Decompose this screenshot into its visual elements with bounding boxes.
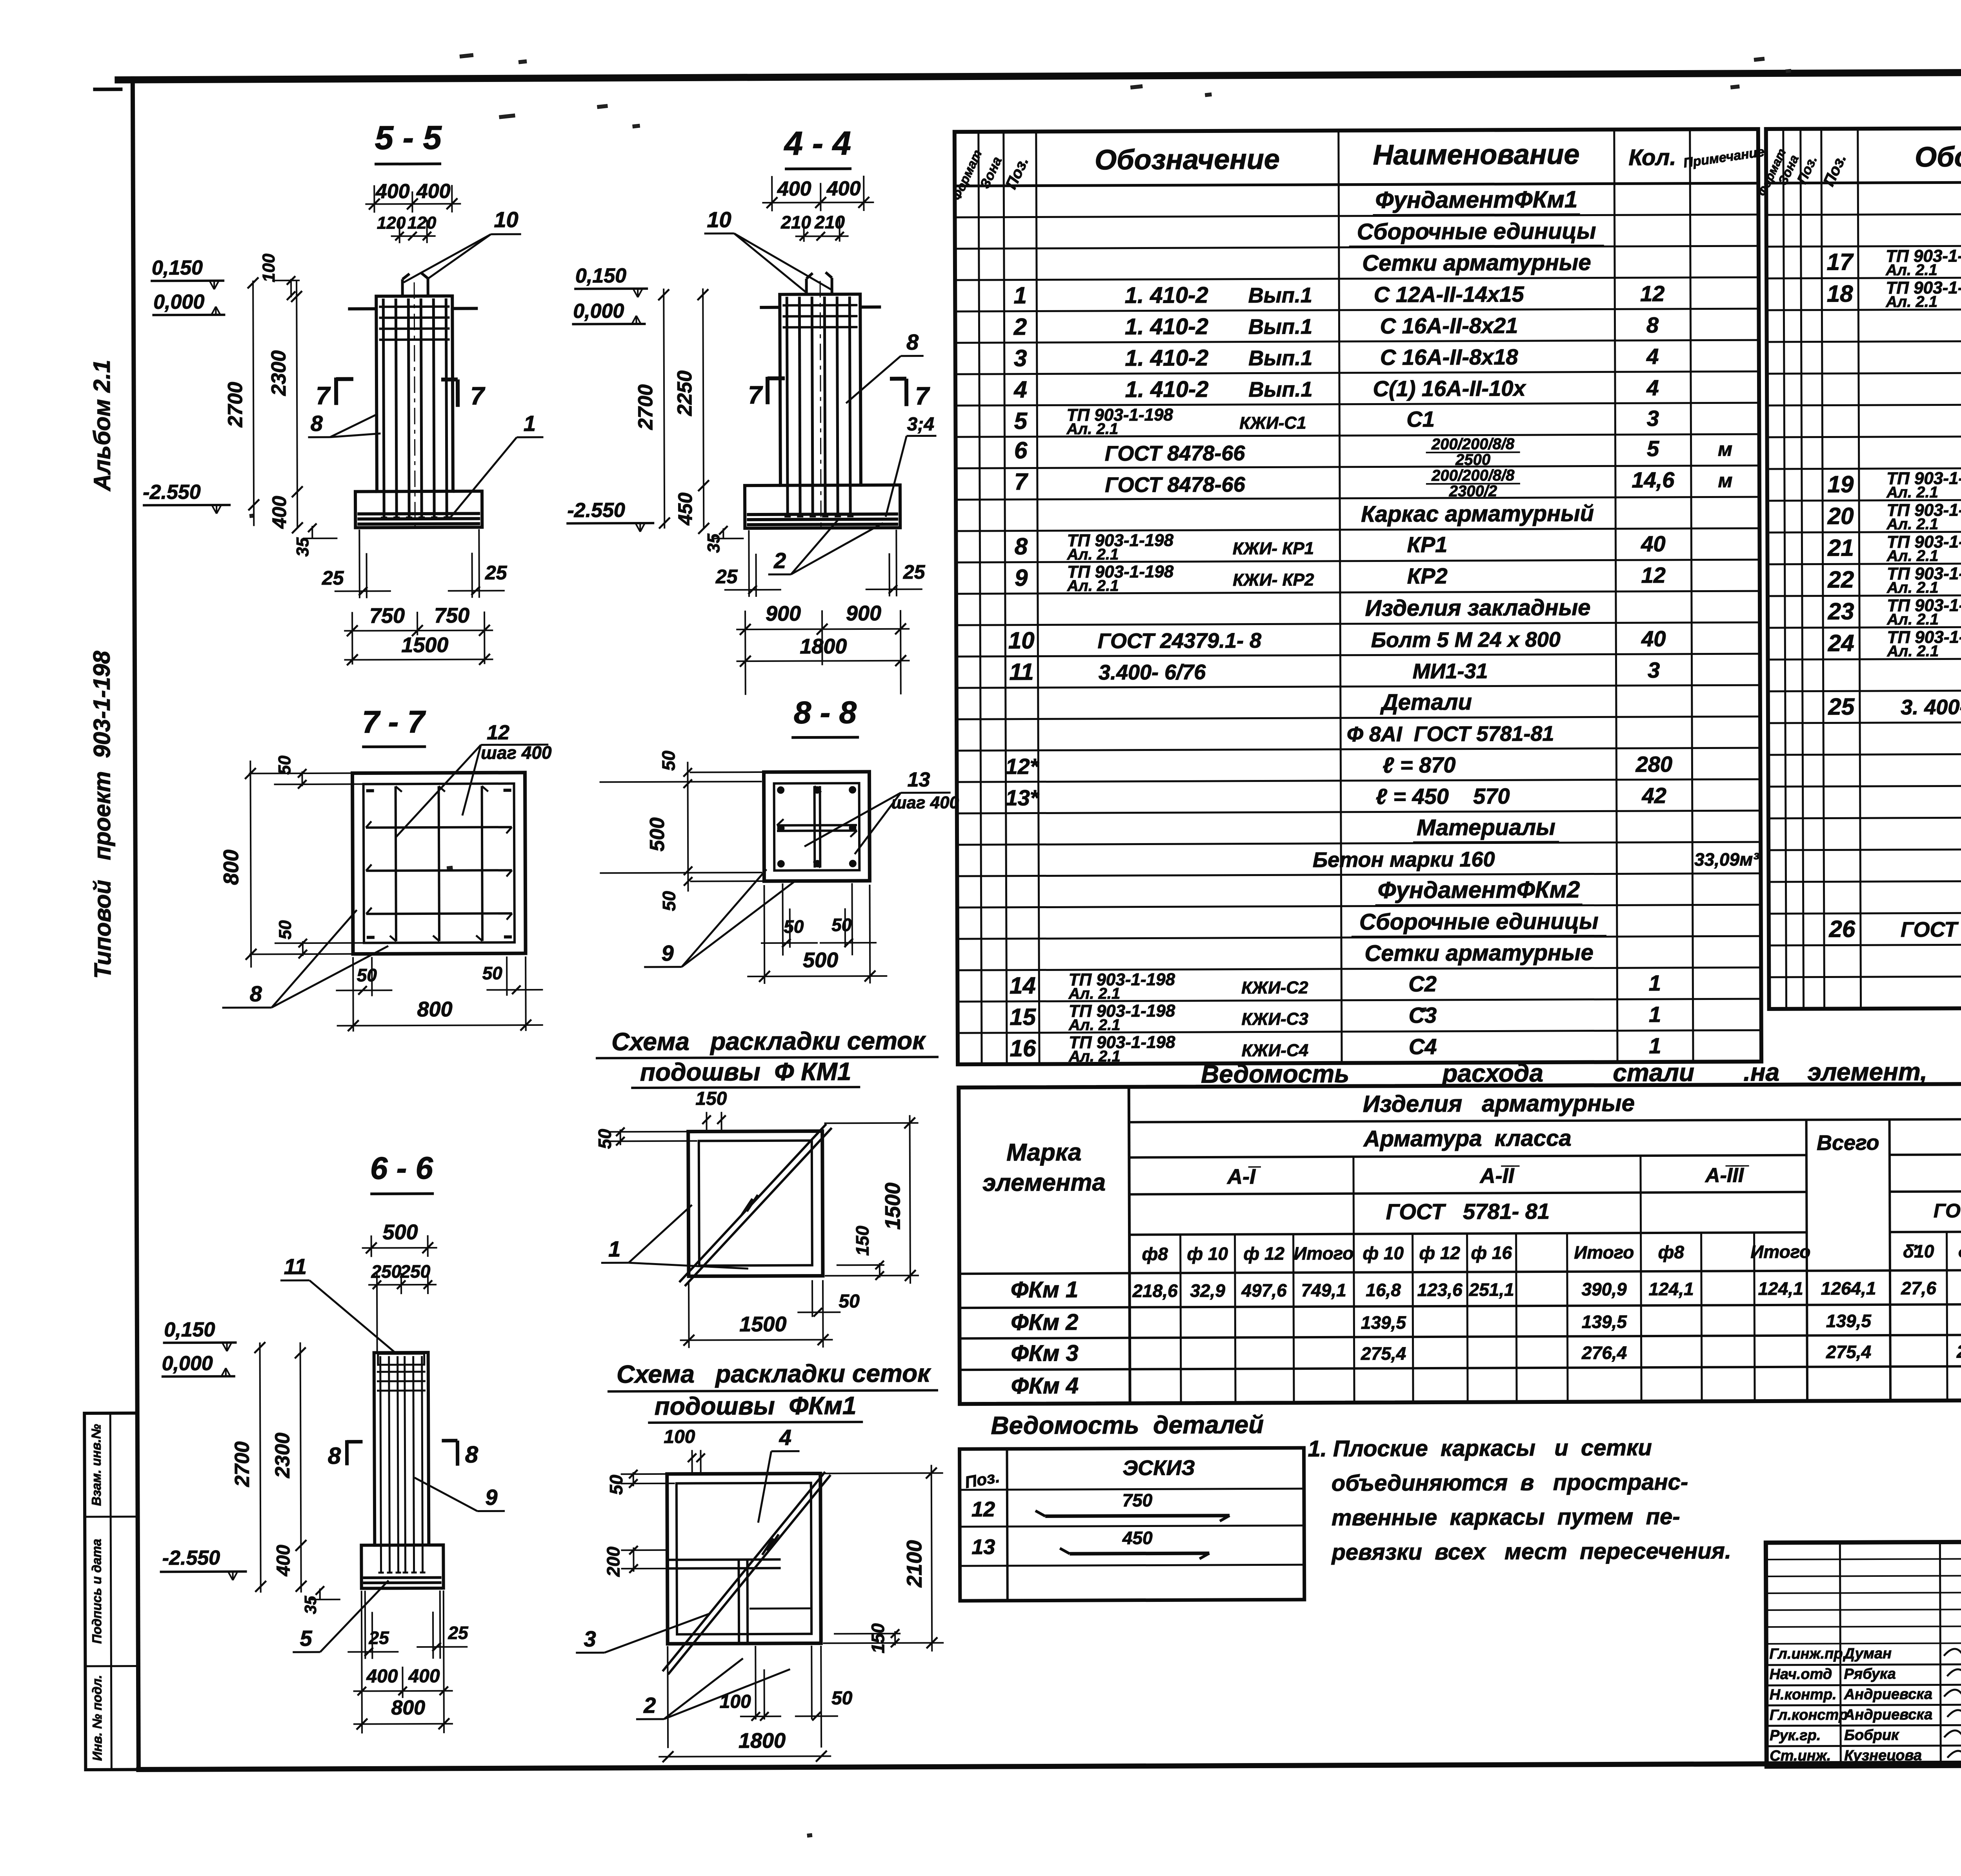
svg-text:2: 2 — [1013, 314, 1027, 340]
svg-text:1. 410-2: 1. 410-2 — [1125, 314, 1208, 340]
svg-text:расхода: расхода — [1441, 1059, 1543, 1087]
svg-text:δ̕12: δ̕12 — [1958, 1241, 1961, 1261]
section 4-4 leader label 2 — [768, 520, 883, 574]
svg-text:подошвы ФКм1: подошвы ФКм1 — [655, 1391, 857, 1420]
svg-text:13: 13 — [908, 768, 930, 791]
svg-text:2500: 2500 — [1455, 451, 1490, 468]
svg-text:7: 7 — [470, 382, 486, 410]
svg-text:12: 12 — [971, 1498, 995, 1521]
svg-text:24: 24 — [1828, 630, 1854, 656]
svg-text:ФундаментФКм1: ФундаментФКм1 — [1375, 186, 1577, 213]
svg-text:50: 50 — [482, 963, 503, 983]
svg-text:900: 900 — [766, 602, 801, 625]
svg-text:ГОСТ 24379.1-80: ГОСТ 24379.1-80 — [1901, 917, 1961, 942]
svg-text:500: 500 — [803, 948, 838, 972]
svg-text:Итого: Итого — [1574, 1242, 1634, 1263]
svg-text:390,9: 390,9 — [1581, 1279, 1627, 1299]
svg-text:Ал. 2.1: Ал. 2.1 — [1887, 642, 1939, 660]
svg-text:Рук.гр.: Рук.гр. — [1770, 1727, 1821, 1744]
svg-text:800: 800 — [219, 850, 243, 885]
svg-text:δ̕10: δ̕10 — [1903, 1241, 1934, 1262]
svg-text:18: 18 — [1827, 280, 1854, 307]
svg-text:400: 400 — [416, 180, 451, 203]
svg-text:25: 25 — [368, 1627, 389, 1648]
svg-text:5 - 5: 5 - 5 — [375, 119, 442, 157]
svg-text:6 - 6: 6 - 6 — [370, 1151, 433, 1186]
svg-text:ф8: ф8 — [1658, 1242, 1684, 1262]
section 5-5 vertical dims 2300/400/100 — [259, 253, 303, 534]
svg-text:КР1: КР1 — [1407, 532, 1447, 557]
svg-text:50: 50 — [831, 914, 852, 935]
section 8-8 title — [791, 695, 859, 738]
svg-text:Думан: Думан — [1843, 1645, 1892, 1662]
svg-text:Вып.1: Вып.1 — [1248, 378, 1312, 402]
svg-text:м: м — [1718, 469, 1732, 491]
svg-text:7: 7 — [1014, 469, 1028, 495]
svg-text:шаг 400: шаг 400 — [481, 742, 552, 763]
svg-text:0,150: 0,150 — [152, 256, 203, 279]
scheme 2 right dims 2100/150 — [822, 1465, 944, 1653]
svg-text:8: 8 — [250, 981, 262, 1006]
svg-text:подошвы Ф КМ1: подошвы Ф КМ1 — [640, 1057, 851, 1086]
svg-text:2700: 2700 — [231, 1442, 253, 1487]
section 5-5 leader label 8 — [308, 411, 380, 437]
svg-text:2250: 2250 — [673, 371, 696, 416]
svg-text:Наименование: Наименование — [1373, 139, 1579, 171]
svg-text:4: 4 — [1646, 344, 1659, 369]
svg-text:0,000: 0,000 — [162, 1352, 213, 1375]
svg-text:Подпись и дата: Подпись и дата — [89, 1539, 104, 1644]
svg-text:4: 4 — [779, 1425, 791, 1450]
svg-text:2300/2: 2300/2 — [1449, 482, 1497, 500]
svg-text:150: 150 — [868, 1623, 888, 1653]
svg-text:Всего: Всего — [1817, 1131, 1879, 1155]
section 5-5 title — [375, 119, 442, 164]
section 5-5 top dim 400/400 — [365, 180, 461, 213]
svg-text:35: 35 — [704, 533, 723, 553]
svg-text:Взам. инв.№: Взам. инв.№ — [89, 1424, 104, 1506]
svg-text:1800: 1800 — [739, 1729, 786, 1752]
svg-text:33,09м³: 33,09м³ — [1694, 849, 1759, 870]
scheme 2 label 4 — [758, 1425, 800, 1523]
svg-text:400: 400 — [777, 178, 811, 200]
svg-text:139,5: 139,5 — [1361, 1312, 1407, 1332]
scheme 1 title: Схема раскладки сеток подошвы ФКм1 — [596, 1026, 939, 1088]
section 4-4 leader label 10 — [704, 207, 831, 292]
section 5-5 level -2.550 — [143, 481, 231, 514]
svg-text:450: 450 — [1122, 1527, 1153, 1548]
scheme 2 title: Схема раскладки сеток подошвы ФКм1 — [608, 1359, 939, 1423]
svg-text:5: 5 — [300, 1626, 312, 1651]
svg-text:Ал. 2.1: Ал. 2.1 — [1067, 577, 1119, 594]
svg-text:450: 450 — [674, 493, 696, 526]
svg-text:0,000: 0,000 — [153, 291, 204, 313]
svg-text:ФКм 4: ФКм 4 — [1011, 1373, 1079, 1399]
svg-text:400: 400 — [408, 1666, 440, 1687]
section 6-6 title — [370, 1151, 434, 1194]
section 4-4 rebar cage — [782, 281, 858, 532]
svg-text:Андриевска: Андриевска — [1844, 1686, 1933, 1703]
svg-text:1. 410-2: 1. 410-2 — [1125, 345, 1208, 371]
svg-text:6: 6 — [1014, 437, 1028, 464]
section 8-8 leader label 9 — [644, 869, 795, 967]
section 6-6 vertical dim 2700 — [231, 1342, 266, 1592]
svg-text:Вып.1: Вып.1 — [1248, 284, 1312, 307]
svg-text:ФКм 3: ФКм 3 — [1011, 1340, 1078, 1366]
svg-text:А-I̅I̅: А-I̅I̅ — [1479, 1164, 1519, 1187]
svg-text:8 - 8: 8 - 8 — [794, 695, 857, 730]
svg-text:Ал. 2.1: Ал. 2.1 — [1067, 546, 1119, 563]
svg-text:5: 5 — [1647, 436, 1659, 461]
svg-text:Ал. 2.1: Ал. 2.1 — [1885, 293, 1937, 310]
section 6-6 dim 800 — [353, 1696, 453, 1730]
svg-text:Обозначение: Обозначение — [1095, 144, 1280, 176]
svg-text:123,6: 123,6 — [1417, 1280, 1463, 1300]
svg-text:Н.контр.: Н.контр. — [1770, 1686, 1837, 1703]
svg-text:Поз.: Поз. — [963, 1467, 1001, 1492]
svg-text:ф8: ф8 — [1142, 1243, 1168, 1264]
svg-text:КЖИ-С2: КЖИ-С2 — [1241, 978, 1308, 998]
section 5-5 bottom dims 25/25 — [321, 529, 507, 598]
section 6-6 leader label 5 — [293, 1580, 389, 1652]
svg-text:ГОСТ 24379.1- 8: ГОСТ 24379.1- 8 — [1097, 629, 1261, 653]
svg-text:8: 8 — [1646, 313, 1659, 337]
svg-text:1500: 1500 — [401, 633, 448, 657]
svg-text:50: 50 — [784, 916, 804, 937]
section 5-5 vertical dim 2700 — [224, 277, 259, 526]
section 6-6 level -2.550 — [160, 1547, 247, 1581]
section 6-6 bottom dims 25/25 — [347, 1591, 469, 1659]
svg-text:19: 19 — [1827, 471, 1854, 497]
svg-text:12*: 12* — [1005, 754, 1039, 778]
svg-text:1: 1 — [1013, 282, 1027, 309]
section 7-7 leader label 8 — [222, 910, 389, 1007]
svg-text:КЖИ- КР2: КЖИ- КР2 — [1233, 570, 1314, 590]
steel consumption table header text — [982, 1087, 1961, 1268]
svg-text:Изделия закладные: Изделия закладные — [1365, 595, 1590, 621]
svg-text:Сборочные единицы: Сборочные единицы — [1357, 218, 1596, 245]
section 4-4 level 0.150 — [574, 264, 648, 298]
svg-text:ℓ = 870: ℓ = 870 — [1383, 753, 1455, 778]
svg-text:25: 25 — [1828, 693, 1855, 720]
section 5-5 leader label 10 — [403, 207, 521, 282]
left stamp strip (Взам.инв.№ / Подпись и дата / Инв.№ подл.) — [84, 1413, 138, 1770]
svg-text:0,150: 0,150 — [164, 1318, 215, 1341]
svg-text:Бетон марки 160: Бетон марки 160 — [1313, 847, 1495, 872]
svg-text:твенные каркасы путем пе-: твенные каркасы путем пе- — [1332, 1504, 1680, 1531]
svg-text:Альбом 2.1: Альбом 2.1 — [89, 360, 115, 492]
svg-text:0,150: 0,150 — [575, 264, 626, 287]
svg-text:Материалы: Материалы — [1417, 814, 1555, 840]
svg-text:22,8: 22,8 — [1956, 1341, 1961, 1362]
scheme 1 top dim 150 — [695, 1088, 727, 1133]
svg-text:9: 9 — [485, 1485, 497, 1509]
svg-text:150: 150 — [695, 1088, 727, 1109]
svg-text:Нач.отд: Нач.отд — [1769, 1666, 1832, 1683]
svg-text:25: 25 — [715, 565, 738, 587]
svg-text:400: 400 — [366, 1666, 398, 1687]
section 5-5 column body — [355, 296, 482, 527]
svg-text:Примечание: Примечание — [1683, 144, 1765, 171]
svg-text:8: 8 — [311, 411, 323, 436]
svg-text:25: 25 — [485, 562, 508, 584]
svg-text:С 12А-II-14х15: С 12А-II-14х15 — [1374, 282, 1524, 307]
svg-text:Сборочные единицы: Сборочные единицы — [1359, 909, 1599, 935]
svg-text:21: 21 — [1827, 534, 1854, 561]
section 7-7 title — [362, 704, 426, 747]
svg-text:-2.550: -2.550 — [567, 499, 625, 522]
svg-text:749,1: 749,1 — [1301, 1280, 1346, 1300]
svg-text:497,6: 497,6 — [1241, 1280, 1287, 1300]
note text — [1308, 1434, 1731, 1565]
svg-text:200/200/8/8: 200/200/8/8 — [1431, 467, 1515, 484]
section 7-7 leader label 12 шаг 400 — [395, 721, 552, 837]
svg-text:16: 16 — [1010, 1035, 1036, 1062]
specification table 1 (ФКм1/ФКм2) grid — [955, 129, 1761, 1064]
section 4-4 top dim 400/400 — [762, 176, 874, 211]
section 8-8 mesh square — [764, 772, 870, 881]
svg-text:500: 500 — [646, 817, 669, 851]
svg-text:Кол.: Кол. — [1628, 145, 1676, 170]
svg-text:МИ1-31: МИ1-31 — [1413, 660, 1488, 684]
svg-text:2700: 2700 — [634, 384, 657, 430]
svg-text:8: 8 — [328, 1443, 341, 1469]
svg-text:Вып.1: Вып.1 — [1248, 346, 1312, 370]
specification table 2 rows — [1826, 183, 1961, 1005]
svg-text:КЖИ-С1: КЖИ-С1 — [1239, 413, 1306, 433]
svg-text:124,1: 124,1 — [1758, 1278, 1803, 1299]
svg-text:11: 11 — [284, 1254, 307, 1279]
svg-text:1: 1 — [1649, 1033, 1661, 1058]
section 4-4 title — [784, 125, 851, 169]
svg-text:12: 12 — [487, 721, 509, 744]
scheme 2 labels 3 and 2 — [576, 1614, 790, 1720]
svg-text:Ведомость деталей: Ведомость деталей — [991, 1411, 1264, 1440]
svg-text:ГОСТ 8478-66: ГОСТ 8478-66 — [1105, 442, 1246, 465]
svg-text:Ал. 2.1: Ал. 2.1 — [1068, 985, 1121, 1002]
svg-text:Болт 5 М 24 х 800: Болт 5 М 24 х 800 — [1371, 628, 1561, 652]
svg-text:ф 12: ф 12 — [1243, 1243, 1284, 1263]
section 5-5 anchor bolts item 10 — [402, 273, 428, 296]
svg-text:1800: 1800 — [800, 634, 847, 658]
svg-text:7: 7 — [316, 382, 331, 410]
svg-text:750: 750 — [369, 604, 405, 627]
svg-text:3: 3 — [1648, 658, 1660, 682]
svg-text:7: 7 — [748, 381, 763, 409]
section 8-8 leader label 13 шаг 400 — [804, 768, 959, 854]
svg-text:ФКм 2: ФКм 2 — [1011, 1309, 1078, 1335]
svg-text:ГОСТ 8478-66: ГОСТ 8478-66 — [1105, 473, 1246, 497]
section 8-8 bottom dims 50/50 and 500 — [747, 883, 887, 984]
svg-text:С3: С3 — [1409, 1003, 1437, 1027]
svg-text:Итого: Итого — [1293, 1243, 1353, 1264]
svg-text:100: 100 — [720, 1691, 751, 1712]
svg-text:800: 800 — [391, 1696, 425, 1719]
svg-text:400: 400 — [268, 496, 290, 529]
svg-text:13*: 13* — [1006, 785, 1040, 810]
svg-text:200: 200 — [603, 1546, 623, 1577]
svg-text:Гл.инж.пр.: Гл.инж.пр. — [1769, 1645, 1847, 1662]
svg-text:250: 250 — [371, 1261, 401, 1282]
svg-text:Ведомость: Ведомость — [1201, 1060, 1349, 1088]
svg-text:32,9: 32,9 — [1190, 1280, 1225, 1301]
section 6-6 cut marks 8-8 — [328, 1440, 478, 1469]
section 6-6 leader label 9 — [415, 1477, 505, 1511]
svg-text:120: 120 — [377, 213, 406, 233]
svg-text:800: 800 — [417, 998, 452, 1021]
svg-text:Ф 8АI ГОСТ 5781-81: Ф 8АI ГОСТ 5781-81 — [1347, 722, 1554, 746]
svg-text:25: 25 — [448, 1623, 469, 1643]
svg-text:Ал. 2.1: Ал. 2.1 — [1885, 261, 1937, 278]
svg-text:100: 100 — [664, 1427, 695, 1447]
svg-text:Ал. 2.1: Ал. 2.1 — [1068, 1016, 1121, 1034]
svg-text:275,4: 275,4 — [1361, 1343, 1406, 1363]
svg-text:1. 410-2: 1. 410-2 — [1125, 376, 1209, 402]
title block outer — [1766, 1540, 1961, 1767]
svg-text:17: 17 — [1826, 249, 1854, 275]
svg-text:Сетки арматурные: Сетки арматурные — [1362, 250, 1591, 276]
svg-text:35: 35 — [293, 537, 312, 557]
section 4-4 bottom dims 25/25 — [715, 530, 926, 597]
svg-text:210: 210 — [814, 212, 845, 232]
svg-text:2300: 2300 — [267, 350, 290, 396]
svg-text:251,1: 251,1 — [1468, 1279, 1514, 1300]
section 4-4 level -2.550 — [566, 499, 654, 532]
svg-text:Бобрик: Бобрик — [1844, 1727, 1899, 1743]
svg-text:50: 50 — [839, 1291, 860, 1312]
section 5-5 level 0.000 — [152, 291, 225, 316]
section 4-4 dim 1800 — [736, 634, 910, 667]
section 5-5 cut marks 7-7 — [316, 377, 486, 411]
svg-text:139,5: 139,5 — [1582, 1311, 1628, 1332]
detail list table — [960, 1448, 1304, 1601]
svg-text:10: 10 — [1008, 627, 1035, 654]
svg-text:Арматура класса: Арматура класса — [1363, 1125, 1572, 1152]
svg-text:1. Плоские каркасы и сетки: 1. Плоские каркасы и сетки — [1308, 1435, 1652, 1462]
steel consumption table title — [1201, 1057, 1961, 1088]
left margin label: Типовой проект 903-1-198 — [88, 651, 116, 979]
scheme 1 bottom dim 50 and 1500 — [680, 1280, 860, 1348]
steel consumption table data rows — [1011, 1272, 1961, 1399]
svg-text:42: 42 — [1641, 783, 1666, 808]
section 7-7 left dim 800 with 50 offsets — [219, 755, 365, 968]
svg-text:-2.550: -2.550 — [143, 481, 201, 504]
svg-text:ГОСТ 5781- 81: ГОСТ 5781- 81 — [1386, 1199, 1550, 1224]
svg-text:2100: 2100 — [902, 1540, 926, 1587]
svg-text:Изделия арматурные: Изделия арматурные — [1363, 1090, 1635, 1117]
svg-text:4: 4 — [1646, 375, 1659, 400]
scheme 2 left dims 50/200 — [603, 1470, 675, 1577]
svg-text:Ал. 2.1: Ал. 2.1 — [1886, 484, 1938, 501]
svg-text:Ал. 2.1: Ал. 2.1 — [1886, 611, 1939, 628]
svg-text:С 16А-II-8х18: С 16А-II-8х18 — [1380, 344, 1519, 369]
section 5-5 rebar cage — [379, 282, 450, 534]
svg-text:Кузнецова: Кузнецова — [1844, 1747, 1922, 1764]
section 6-6 dim 35 — [301, 1586, 340, 1614]
section 4-4 vertical dims 2250/450 — [673, 288, 709, 534]
svg-text:2: 2 — [643, 1693, 656, 1718]
section 5-5 ground line 0.000 — [348, 308, 478, 309]
svg-text:Каркас арматурный: Каркас арматурный — [1361, 501, 1594, 527]
svg-text:КЖИ- КР1: КЖИ- КР1 — [1233, 539, 1314, 558]
svg-text:250: 250 — [400, 1261, 430, 1282]
section 7-7 bottom dims 50/50 and 800 — [336, 956, 543, 1032]
svg-text:2: 2 — [773, 548, 786, 573]
svg-text:10: 10 — [707, 207, 731, 232]
svg-text:50: 50 — [357, 965, 377, 985]
svg-text:100: 100 — [259, 253, 278, 282]
svg-text:12: 12 — [1641, 563, 1666, 587]
svg-text:Ал. 2.1: Ал. 2.1 — [1886, 547, 1939, 564]
svg-text:С1: С1 — [1406, 407, 1435, 431]
svg-text:16,8: 16,8 — [1366, 1280, 1401, 1300]
svg-text:14: 14 — [1010, 973, 1036, 999]
section 6-6 level 0.000 — [162, 1352, 235, 1377]
svg-text:11: 11 — [1009, 659, 1034, 685]
svg-text:ГОСТ 103 - 76: ГОСТ 103 - 76 — [1934, 1199, 1961, 1222]
svg-text:Сетки арматурные: Сетки арматурные — [1364, 940, 1594, 966]
section 5-5 level 0.150 — [151, 256, 224, 290]
section 6-6 vertical dims 2300/400 — [271, 1342, 307, 1592]
scheme 2 mesh plan — [662, 1472, 831, 1674]
svg-text:3;4: 3;4 — [907, 414, 935, 434]
svg-text:20: 20 — [1827, 503, 1854, 529]
svg-text:25: 25 — [903, 561, 926, 583]
svg-text:1: 1 — [608, 1236, 620, 1261]
section 5-5 dim 750/750 — [344, 604, 493, 664]
svg-text:124,1: 124,1 — [1648, 1279, 1694, 1299]
section 6-6 leader label 11 — [280, 1254, 396, 1353]
svg-text:50: 50 — [276, 920, 295, 940]
svg-text:С2: С2 — [1408, 971, 1437, 996]
svg-text:50: 50 — [831, 1688, 853, 1709]
section 4-4 level 0.000 — [572, 300, 646, 325]
section 4-4 vertical dim 2700 — [634, 289, 670, 529]
svg-text:3: 3 — [584, 1626, 596, 1651]
section 4-4 ground line — [760, 307, 881, 307]
svg-text:15: 15 — [1010, 1004, 1037, 1030]
svg-text:50: 50 — [606, 1474, 626, 1495]
svg-text:Андриевска: Андриевска — [1844, 1707, 1933, 1723]
left margin label: Альбом 2.1 — [89, 360, 115, 492]
section 4-4 column body — [744, 294, 900, 528]
svg-text:5: 5 — [1014, 408, 1028, 434]
svg-text:ЭСКИЗ: ЭСКИЗ — [1122, 1456, 1195, 1480]
svg-text:С 16А-II-8х21: С 16А-II-8х21 — [1380, 313, 1518, 338]
svg-text:8: 8 — [1015, 533, 1028, 560]
svg-text:ф 16: ф 16 — [1471, 1242, 1512, 1263]
svg-text:4: 4 — [1013, 376, 1027, 403]
scheme 2 top dim 100 — [664, 1426, 705, 1475]
scheme 1 mesh plan — [679, 1124, 832, 1286]
svg-text:280: 280 — [1635, 752, 1673, 776]
svg-text:.на: .на — [1743, 1058, 1779, 1086]
section 8-8 left dims 50/500/50 — [599, 750, 766, 911]
svg-text:стали: стали — [1613, 1058, 1694, 1087]
specification table 2 (ФКм2/ФКм3/ФКм4) grid — [1766, 126, 1961, 1009]
svg-text:9: 9 — [661, 941, 673, 965]
svg-text:КЖИ-С4: КЖИ-С4 — [1242, 1041, 1309, 1060]
svg-text:-2.550: -2.550 — [162, 1547, 220, 1570]
scheme 1 leader label 1 — [601, 1205, 748, 1269]
detail list title — [991, 1411, 1264, 1440]
svg-text:218,6: 218,6 — [1132, 1280, 1178, 1301]
svg-text:С(1) 16А-II-10х: С(1) 16А-II-10х — [1373, 376, 1526, 401]
svg-text:35: 35 — [301, 1596, 320, 1614]
svg-text:Ал. 2.1: Ал. 2.1 — [1068, 1048, 1121, 1065]
svg-text:1500: 1500 — [881, 1183, 904, 1230]
section 4-4 dim 210/210 — [780, 212, 849, 242]
